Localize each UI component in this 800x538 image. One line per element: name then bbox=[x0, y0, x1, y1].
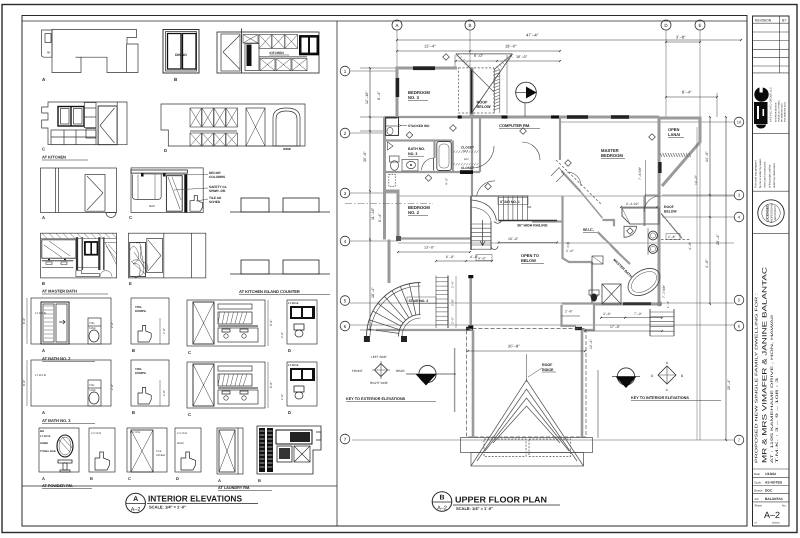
svg-text:SCHED: SCHED bbox=[156, 454, 165, 457]
upper floor plan title text bbox=[453, 495, 560, 512]
stair no 2 curved fan bbox=[367, 283, 421, 337]
closet labels + rod hatch bbox=[453, 146, 478, 171]
svg-text:LT FIX B: LT FIX B bbox=[35, 311, 46, 315]
svg-text:C: C bbox=[129, 215, 132, 220]
svg-text:B: B bbox=[468, 23, 471, 28]
kitchen island counter plan row3 bbox=[230, 198, 330, 212]
svg-text:This work was prepared: This work was prepared bbox=[755, 160, 758, 188]
svg-text:MR: MR bbox=[40, 430, 44, 433]
elevation B (AT BATH NO. 3) bbox=[131, 360, 169, 415]
stair1 4-0 dim bbox=[476, 255, 492, 261]
svg-text:GAC: GAC bbox=[149, 204, 155, 208]
dimension line 3-8 right bbox=[665, 35, 701, 43]
vertical dim 7-6 bbox=[638, 160, 645, 207]
label 36 high railing bbox=[517, 224, 548, 228]
svg-text:W.I.C.: W.I.C. bbox=[583, 227, 594, 232]
svg-text:A: A bbox=[42, 215, 45, 220]
room label bath no 3 bbox=[408, 147, 425, 156]
room label computer rm bbox=[499, 123, 540, 129]
svg-text:RIGHT SIDE: RIGHT SIDE bbox=[370, 381, 388, 385]
ridge centerline bbox=[526, 354, 528, 382]
svg-text:DN: DN bbox=[527, 205, 531, 209]
svg-text:E: E bbox=[698, 23, 701, 28]
info rows bbox=[753, 469, 790, 502]
IDG logo bbox=[754, 86, 769, 129]
svg-text:C: C bbox=[42, 147, 45, 152]
svg-text:A–2: A–2 bbox=[764, 510, 780, 520]
svg-text:6´–4″: 6´–4″ bbox=[378, 213, 382, 222]
wic bench and dims bbox=[566, 242, 603, 264]
svg-text:8´–4″: 8´–4″ bbox=[682, 90, 692, 95]
room label bedroom no 2 bbox=[408, 205, 430, 216]
svg-text:by me or under my super-: by me or under my super- bbox=[759, 158, 762, 188]
misc dims lower right bbox=[561, 127, 698, 440]
elevation D (AT BATH NO. 2) bbox=[280, 300, 317, 353]
bath3 toilet bbox=[390, 156, 400, 170]
svg-text:16´–0″: 16´–0″ bbox=[516, 55, 528, 59]
svg-text:TANK: TANK bbox=[89, 389, 96, 392]
lanai screen hatch bbox=[660, 153, 691, 157]
panel divider line bbox=[336, 21, 338, 526]
svg-text:SCALE: 1/4″ = 1´-0″: SCALE: 1/4″ = 1´-0″ bbox=[149, 505, 186, 510]
svg-text:28´–4″: 28´–4″ bbox=[716, 234, 720, 245]
svg-text:6´–0″: 6´–0″ bbox=[474, 54, 484, 58]
grid bubble column lines bbox=[397, 30, 700, 440]
section arrow symbol computer rm bbox=[515, 82, 537, 116]
svg-text:4´–0″: 4´–0″ bbox=[705, 259, 709, 268]
license stamp bbox=[758, 200, 784, 226]
quarter round closet bbox=[624, 226, 637, 237]
bedroom3 right wall black bbox=[470, 70, 472, 114]
svg-text:T.M.K. : 3 – 9 – 108 : 3: T.M.K. : 3 – 9 – 108 : 3 bbox=[775, 378, 779, 463]
svg-text:NO. 3: NO. 3 bbox=[408, 95, 420, 100]
svg-text:2´-8″: 2´-8″ bbox=[280, 394, 284, 400]
svg-text:B: B bbox=[439, 495, 444, 502]
svg-text:COMPUTER RM.: COMPUTER RM. bbox=[499, 123, 530, 128]
svg-text:FAX (808) 555 0134: FAX (808) 555 0134 bbox=[784, 102, 787, 122]
svg-text:2´-8″: 2´-8″ bbox=[162, 390, 166, 396]
elevation A (kitchen soffit plan) row1 bbox=[42, 30, 139, 83]
label stair no 1 bbox=[498, 198, 531, 210]
svg-text:SHWR: SHWR bbox=[40, 442, 48, 445]
svg-text:C: C bbox=[188, 412, 191, 417]
svg-text:vision and construction: vision and construction bbox=[764, 161, 767, 188]
dashed door block lower left wall bbox=[389, 175, 396, 187]
svg-text:LEFT SIDE: LEFT SIDE bbox=[371, 355, 387, 359]
svg-text:LT FIX B: LT FIX B bbox=[288, 364, 298, 367]
svg-text:KITCHEN: KITCHEN bbox=[270, 51, 285, 55]
grid bubbles right bbox=[734, 117, 744, 445]
grid bubbles top bbox=[392, 20, 705, 30]
svg-text:TILE: TILE bbox=[156, 450, 162, 453]
svg-text:15´–0″: 15´–0″ bbox=[508, 237, 519, 241]
svg-text:Sheet: Sheet bbox=[755, 504, 763, 508]
room label master bedroom bbox=[601, 148, 625, 159]
label stair no 2 bbox=[409, 299, 429, 303]
sheet number box bbox=[755, 504, 787, 525]
svg-text:STAIR NO. 1: STAIR NO. 1 bbox=[500, 200, 520, 204]
interior elevations title text bbox=[147, 494, 258, 510]
bath3 washer cabinet bbox=[386, 117, 399, 135]
dim 4-6 above cabinet bbox=[620, 202, 658, 208]
svg-text:8´–4″: 8´–4″ bbox=[377, 91, 381, 100]
svg-text:BALANTAC: BALANTAC bbox=[765, 497, 784, 501]
elevation C (shower) row3 bbox=[129, 168, 227, 220]
svg-text:STAIR NO. 2: STAIR NO. 2 bbox=[409, 299, 429, 303]
svg-text:6´–0″: 6´–0″ bbox=[446, 255, 455, 259]
svg-text:36″ HIGH RAILING: 36″ HIGH RAILING bbox=[517, 224, 548, 228]
vertical ladder band bbox=[494, 70, 500, 114]
svg-text:8´-0″: 8´-0″ bbox=[269, 382, 273, 388]
stair no 1 bbox=[471, 196, 557, 250]
svg-text:A: A bbox=[218, 478, 221, 483]
bedroom2 corner post bbox=[396, 236, 401, 241]
svg-text:4´–0″: 4´–0″ bbox=[478, 256, 487, 260]
svg-text:BELOW: BELOW bbox=[664, 210, 677, 214]
elevation C (at kitchen) row2 bbox=[42, 102, 127, 160]
svg-text:PROPOSED NEW SINGLE FAMILY DWE: PROPOSED NEW SINGLE FAMILY DWELLING FOR … bbox=[754, 293, 759, 463]
svg-text:C: C bbox=[128, 476, 131, 481]
elevation A (AT BATH NO. 2) bbox=[22, 298, 114, 362]
svg-text:ROOF: ROOF bbox=[542, 363, 553, 367]
svg-text:HONOLULU HI 96815: HONOLULU HI 96815 bbox=[778, 100, 781, 122]
svg-text:KEY TO INTERIOR ELEVATIONS: KEY TO INTERIOR ELEVATIONS bbox=[631, 396, 689, 400]
svg-text:AT MASTER BATH: AT MASTER BATH bbox=[42, 289, 77, 294]
elevation B (laundry washer dryer) bbox=[257, 426, 321, 483]
svg-text:2´–8″: 2´–8″ bbox=[565, 310, 573, 314]
svg-text:LT FIX B: LT FIX B bbox=[40, 435, 50, 438]
master bath shower bbox=[602, 284, 621, 304]
13-0 dim bbox=[397, 246, 471, 253]
svg-text:INTERIOR DESIGN: INTERIOR DESIGN bbox=[775, 102, 778, 122]
svg-text:BEDROOM: BEDROOM bbox=[601, 153, 623, 158]
door diamonds bbox=[406, 54, 655, 235]
wall column dot bbox=[657, 301, 662, 306]
svg-text:SCHED: SCHED bbox=[209, 200, 221, 204]
svg-text:ROOF: ROOF bbox=[664, 205, 674, 209]
svg-text:6P: 6P bbox=[47, 51, 51, 55]
elevation E row4 bbox=[128, 233, 205, 286]
svg-text:XYZ–INC. INTL–GROUP, LLC: XYZ–INC. INTL–GROUP, LLC bbox=[770, 87, 773, 122]
svg-text:7´–0″: 7´–0″ bbox=[634, 312, 643, 316]
top dimension line 47-4 bbox=[396, 33, 742, 41]
svg-text:Date: Date bbox=[754, 472, 760, 476]
svg-text:11´–10″: 11´–10″ bbox=[371, 207, 375, 220]
svg-text:PH (808) 555 0133: PH (808) 555 0133 bbox=[781, 103, 784, 122]
title block box bbox=[753, 16, 790, 526]
small dim 4-2 near bedroom2 bbox=[445, 178, 449, 185]
elevation D (AT BATH NO. 3) bbox=[280, 362, 317, 415]
elevation A (at powder rm) bbox=[39, 428, 92, 489]
svg-text:Drawn: Drawn bbox=[754, 489, 763, 493]
svg-text:BY: BY bbox=[782, 19, 787, 23]
svg-text:of: of bbox=[755, 522, 757, 525]
elevation A (at master bath) row3 bbox=[41, 168, 117, 220]
svg-text:13´–4″: 13´–4″ bbox=[424, 44, 436, 49]
svg-text:A–2: A–2 bbox=[131, 507, 141, 513]
svg-text:14´–0″: 14´–0″ bbox=[694, 175, 698, 185]
svg-text:8´-0″: 8´-0″ bbox=[22, 318, 26, 324]
svg-text:Job: Job bbox=[754, 497, 759, 501]
svg-text:8´-0″: 8´-0″ bbox=[22, 380, 26, 386]
svg-text:STACKED WD: STACKED WD bbox=[408, 124, 430, 128]
bath3 door notch top bbox=[388, 142, 394, 150]
IDG company text (rotated) bbox=[770, 87, 787, 122]
svg-text:3´–8″: 3´–8″ bbox=[603, 312, 612, 316]
svg-text:12´–10″: 12´–10″ bbox=[365, 91, 369, 104]
svg-text:COMPA: COMPA bbox=[135, 371, 147, 375]
15-0 dim bbox=[498, 237, 558, 243]
stair no2 label box bbox=[407, 297, 436, 304]
svg-text:MIRR: MIRR bbox=[177, 442, 184, 445]
svg-text:RIDGE: RIDGE bbox=[542, 368, 554, 372]
svg-text:C: C bbox=[188, 350, 191, 355]
dimension line 6-0 / 16-0 bbox=[455, 54, 561, 114]
svg-text:4´–0″: 4´–0″ bbox=[688, 241, 692, 250]
svg-text:LT FIX B: LT FIX B bbox=[91, 432, 101, 435]
svg-text:COMPA: COMPA bbox=[135, 309, 147, 313]
svg-text:A: A bbox=[42, 410, 45, 415]
elevation D (powder lav) bbox=[175, 428, 201, 481]
svg-text:B: B bbox=[132, 410, 135, 415]
svg-text:MR & MRS VIMAFER & JANINE BALA: MR & MRS VIMAFER & JANINE BALANTAC bbox=[762, 266, 769, 463]
svg-text:NO. 2: NO. 2 bbox=[408, 210, 420, 215]
project text (rotated) bbox=[754, 266, 779, 463]
door swing arcs bbox=[472, 142, 660, 212]
room label wic bbox=[583, 227, 597, 233]
svg-text:TANK: TANK bbox=[89, 327, 96, 330]
svg-text:LT FIX B: LT FIX B bbox=[288, 302, 298, 305]
wic closet diagonal wall bbox=[598, 232, 619, 252]
interior walls bbox=[376, 117, 659, 330]
elevation B (master bath vanity) row4 bbox=[41, 233, 118, 294]
dimension line 13-4 / 18-0 bbox=[396, 44, 561, 52]
bath3 door arc bbox=[422, 158, 434, 171]
label master bath (diagonal) bbox=[612, 258, 633, 279]
elevation B (AT BATH NO. 2) bbox=[131, 298, 169, 353]
room label open to below bbox=[521, 253, 544, 264]
elevation A (at laundry rm) bbox=[217, 428, 272, 491]
dashed roofline in master bedroom bbox=[556, 160, 601, 204]
master bath toilet bbox=[589, 290, 599, 302]
roof ridge dim 20-8 bbox=[467, 344, 586, 352]
roof gable chevrons bbox=[471, 380, 584, 466]
room label bedroom no 3 bbox=[408, 90, 430, 101]
svg-text:NO. 3: NO. 3 bbox=[408, 152, 417, 156]
svg-text:3´–8″: 3´–8″ bbox=[676, 35, 686, 40]
outer walls upper block bbox=[384, 68, 700, 304]
svg-text:REVISION: REVISION bbox=[755, 19, 772, 23]
svg-text:2´–0″: 2´–0″ bbox=[566, 249, 574, 253]
svg-text:AT KITCHEN ISLAND COUNTER: AT KITCHEN ISLAND COUNTER bbox=[239, 289, 300, 294]
lower wing roof dashed outline bbox=[467, 329, 587, 438]
svg-text:18´–4″: 18´–4″ bbox=[371, 287, 375, 298]
svg-text:1/13/02: 1/13/02 bbox=[765, 472, 776, 476]
boxed dim 2-8 right bbox=[666, 234, 680, 240]
svg-text:BELOW: BELOW bbox=[521, 258, 536, 263]
svg-text:E: E bbox=[129, 281, 132, 286]
svg-text:LT FIX B: LT FIX B bbox=[35, 373, 46, 377]
svg-text:DGC: DGC bbox=[765, 489, 773, 493]
svg-text:A: A bbox=[42, 476, 45, 481]
stacked wd note bbox=[399, 124, 430, 128]
revision table bbox=[753, 16, 790, 73]
svg-text:D: D bbox=[288, 410, 291, 415]
key to exterior elevations bbox=[346, 355, 456, 402]
right vertical dimension chain bbox=[705, 116, 731, 441]
interior elevations title bubble bbox=[126, 493, 146, 513]
svg-text:DINING: DINING bbox=[175, 53, 187, 57]
svg-text:D: D bbox=[288, 348, 291, 353]
roof below hatched area top bbox=[456, 54, 513, 117]
svg-text:ARCHITECT: ARCHITECT bbox=[774, 205, 777, 220]
svg-text:of this project will be: of this project will be bbox=[768, 164, 771, 188]
svg-text:20´–8″: 20´–8″ bbox=[508, 344, 520, 349]
elevation kitchen wall row1 bbox=[217, 29, 319, 74]
svg-text:Scale: Scale bbox=[754, 480, 762, 484]
svg-text:A: A bbox=[42, 348, 45, 353]
svg-text:A–2: A–2 bbox=[437, 506, 447, 512]
kitchen island counter plan row4 bbox=[230, 260, 330, 295]
svg-text:BATH NO.: BATH NO. bbox=[408, 147, 425, 151]
vertical dim near tub bbox=[662, 284, 666, 298]
grid line rows bbox=[350, 71, 734, 440]
svg-text:17´–0″: 17´–0″ bbox=[610, 325, 621, 329]
upper floor plan title bubble bbox=[432, 492, 452, 512]
svg-text:18´–0″: 18´–0″ bbox=[505, 44, 517, 49]
svg-text:4´–0″: 4´–0″ bbox=[470, 255, 479, 259]
svg-text:2´–6″: 2´–6″ bbox=[451, 317, 455, 324]
dash-dot centerline bbox=[345, 203, 433, 205]
room label open lanai bbox=[668, 127, 684, 138]
grid bubbles left bbox=[340, 66, 350, 444]
bath3 vanity bbox=[402, 159, 418, 171]
elevation B (powder toilet) bbox=[89, 428, 115, 481]
svg-text:B: B bbox=[132, 348, 135, 353]
dimension line 8-4 right bbox=[665, 90, 718, 118]
svg-text:COLUMNS: COLUMNS bbox=[209, 175, 225, 179]
svg-text:SHWR. DR.: SHWR. DR. bbox=[209, 189, 226, 193]
lanai roof below diagonal bbox=[661, 205, 690, 240]
svg-text:2´-8″: 2´-8″ bbox=[280, 332, 284, 338]
svg-text:20´–4″: 20´–4″ bbox=[727, 379, 731, 390]
svg-text:LIN: LIN bbox=[464, 157, 468, 161]
porch roof bands below gable bbox=[461, 438, 593, 467]
svg-text:LICENSED: LICENSED bbox=[766, 204, 770, 222]
svg-text:7´–6 5/8″: 7´–6 5/8″ bbox=[638, 166, 642, 180]
svg-text:BELOW: BELOW bbox=[477, 105, 492, 109]
svg-text:under my observation.: under my observation. bbox=[773, 162, 776, 188]
master bath tub bbox=[623, 263, 665, 301]
svg-text:8´-0″: 8´-0″ bbox=[269, 320, 273, 326]
stair2 posts bbox=[364, 336, 407, 342]
black window blocks on walls bbox=[396, 66, 629, 330]
roof diagonals bbox=[472, 54, 513, 113]
svg-text:4´–2″: 4´–2″ bbox=[445, 178, 449, 185]
svg-text:13´–0″: 13´–0″ bbox=[424, 246, 435, 250]
elevation C (powder door) bbox=[127, 428, 167, 481]
elevation A (AT BATH NO. 3) bbox=[22, 360, 114, 424]
svg-text:12´–4″: 12´–4″ bbox=[589, 339, 593, 349]
svg-text:KEY TO EXTERIOR ELEVATIONS: KEY TO EXTERIOR ELEVATIONS bbox=[346, 397, 406, 401]
wing wall upper with windows bbox=[469, 276, 472, 331]
wall extension below plan bbox=[454, 348, 456, 412]
svg-text:FRONT: FRONT bbox=[352, 369, 363, 373]
svg-text:1´–6″: 1´–6″ bbox=[666, 301, 670, 308]
svg-text:B: B bbox=[90, 476, 93, 481]
svg-text:A: A bbox=[133, 496, 138, 503]
svg-text:WINE: WINE bbox=[283, 147, 291, 151]
roof ridge label bbox=[528, 363, 556, 377]
svg-text:D: D bbox=[176, 476, 179, 481]
elevation C (AT BATH NO. 3) bbox=[187, 362, 273, 417]
wing right extra line bbox=[597, 370, 599, 438]
svg-text:2´-8″: 2´-8″ bbox=[110, 384, 114, 390]
svg-text:2´-8″: 2´-8″ bbox=[162, 328, 166, 334]
svg-text:AT LAUNDRY RM.: AT LAUNDRY RM. bbox=[218, 486, 250, 490]
svg-text:A: A bbox=[395, 23, 398, 28]
lower wing walls bbox=[473, 330, 582, 437]
svg-text:30´–0″: 30´–0″ bbox=[363, 151, 367, 162]
svg-text:AT BATH NO. 3: AT BATH NO. 3 bbox=[42, 418, 71, 423]
bedroom bay zigzag bbox=[551, 168, 564, 183]
svg-text:INTERIOR ELEVATIONS: INTERIOR ELEVATIONS bbox=[148, 494, 242, 504]
svg-text:14´–0″: 14´–0″ bbox=[705, 151, 709, 162]
small stair mid right bbox=[650, 309, 674, 336]
svg-text:D: D bbox=[164, 148, 167, 153]
svg-text:sheets: sheets bbox=[772, 522, 780, 525]
svg-text:LANAI: LANAI bbox=[668, 132, 680, 137]
svg-text:AT : 1195 KAMEHAME DRIVE , H: AT : 1195 KAMEHAME DRIVE , HON, HAWAII bbox=[770, 315, 774, 463]
svg-text:ROOF: ROOF bbox=[477, 101, 489, 105]
master suite cabinet near bath bbox=[622, 208, 659, 224]
svg-text:2´–6″: 2´–6″ bbox=[451, 281, 455, 288]
stair2 straight shaft bbox=[436, 276, 448, 329]
6-0 4-0 dims bbox=[435, 255, 493, 262]
svg-text:10: 10 bbox=[737, 120, 742, 125]
svg-text:TOIL: TOIL bbox=[89, 384, 95, 387]
bath3 tub bbox=[437, 142, 452, 171]
svg-text:4´–6 1/2″: 4´–6 1/2″ bbox=[626, 202, 640, 206]
disclaimer text (rotated tiny) bbox=[755, 158, 776, 188]
svg-text:2´–8″: 2´–8″ bbox=[668, 235, 676, 239]
elevations panel bottom rule bbox=[22, 485, 337, 487]
master bath vanity sinks bbox=[648, 228, 657, 255]
elevation D (kitchen cont.) row2 bbox=[161, 104, 305, 153]
elevation B (dining) row1 bbox=[163, 30, 199, 83]
svg-text:2´-8″: 2´-8″ bbox=[110, 322, 114, 328]
svg-text:7´–7 6/8″: 7´–7 6/8″ bbox=[662, 284, 666, 298]
svg-text:B: B bbox=[258, 478, 261, 483]
svg-text:AT POWDER RM.: AT POWDER RM. bbox=[42, 484, 73, 488]
svg-text:AT KITCHEN: AT KITCHEN bbox=[42, 155, 66, 160]
svg-text:B: B bbox=[42, 281, 45, 286]
svg-text:SCALE: 1/4″ = 1´-0″: SCALE: 1/4″ = 1´-0″ bbox=[456, 506, 493, 511]
svg-text:UPPER FLOOR PLAN: UPPER FLOOR PLAN bbox=[455, 495, 547, 505]
svg-text:TOWEL BAR: TOWEL BAR bbox=[40, 450, 56, 453]
elevation C (AT BATH NO. 2) bbox=[187, 300, 273, 355]
left vertical dimension chain bbox=[360, 67, 437, 331]
svg-text:6´–0″: 6´–0″ bbox=[451, 299, 455, 306]
black window bath bottom wall bbox=[623, 302, 651, 305]
svg-text:No.: No. bbox=[782, 504, 787, 508]
svg-text:LT FIX B: LT FIX B bbox=[177, 432, 187, 435]
key circle right bbox=[612, 368, 640, 388]
key to interior elevations bbox=[631, 361, 721, 401]
svg-text:TOIL: TOIL bbox=[89, 322, 95, 325]
svg-text:REAR: REAR bbox=[396, 369, 405, 373]
svg-text:47´–4″: 47´–4″ bbox=[526, 33, 539, 38]
